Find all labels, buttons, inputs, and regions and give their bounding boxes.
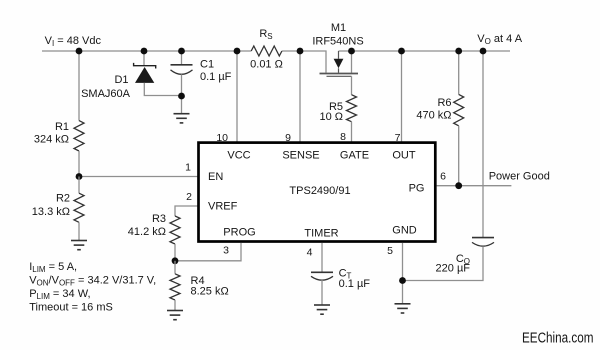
svg-text:SMAJ60A: SMAJ60A: [81, 88, 131, 100]
svg-text:OUT: OUT: [392, 150, 416, 162]
svg-text:C1: C1: [200, 59, 214, 71]
node rail junction VCC: [234, 48, 241, 55]
node rail junction R1: [76, 48, 83, 55]
svg-text:3: 3: [223, 245, 229, 257]
wire VREF pin lead: [175, 206, 199, 216]
svg-text:470 kΩ: 470 kΩ: [416, 110, 451, 122]
svg-text:220 µF: 220 µF: [436, 262, 471, 274]
wire M1 gate to R5: [351, 76, 353, 94]
svg-text:6: 6: [440, 171, 446, 183]
svg-text:324 kΩ: 324 kΩ: [34, 133, 69, 145]
svg-text:Timeout = 16 mS: Timeout = 16 mS: [29, 302, 113, 314]
svg-text:SENSE: SENSE: [282, 150, 319, 162]
svg-text:0.1 µF: 0.1 µF: [200, 71, 232, 83]
resistor RS: [251, 46, 282, 56]
resistor R3: [170, 216, 180, 244]
svg-text:TPS2490/91: TPS2490/91: [289, 185, 350, 197]
svg-text:7: 7: [395, 132, 401, 144]
svg-text:0.1 µF: 0.1 µF: [339, 278, 371, 290]
capacitor C1: [181, 51, 183, 65]
svg-text:VCC: VCC: [227, 150, 250, 162]
wire R6 bottom to PG line: [458, 126, 460, 186]
svg-text:8.25 kΩ: 8.25 kΩ: [191, 286, 229, 298]
svg-text:GATE: GATE: [340, 150, 369, 162]
capacitor CT: [311, 271, 333, 273]
wire CO bottom to GND node: [403, 246, 484, 280]
node rail junction D1: [141, 48, 148, 55]
svg-text:R6: R6: [437, 97, 451, 109]
svg-text:R3: R3: [152, 213, 166, 225]
resistor R2: [78, 177, 80, 194]
node rail junction OUT: [398, 48, 405, 55]
ground below C1: [174, 114, 190, 123]
wire M1 source lead: [351, 51, 353, 73]
ground below GND pin: [395, 304, 411, 313]
node PG/R6 junction: [455, 182, 462, 189]
node C1/D1 junction: [178, 93, 185, 100]
svg-text:4: 4: [307, 247, 313, 259]
wire C1 bottom to ground: [181, 74, 183, 113]
resistor R4: [174, 261, 176, 274]
svg-text:PROG: PROG: [223, 227, 255, 239]
svg-text:1: 1: [185, 162, 191, 174]
svg-text:10 Ω: 10 Ω: [319, 111, 343, 123]
svg-text:R2: R2: [56, 193, 70, 205]
resistor R5: [347, 95, 357, 122]
diode D1: [143, 51, 145, 66]
node R3/R4/PROG junction: [172, 257, 179, 264]
node rail junction SENSE: [297, 48, 304, 55]
wire R4 to ground: [174, 300, 176, 311]
wire VCC pin lead: [236, 51, 238, 143]
wire R1 bottom to EN node: [78, 151, 80, 177]
svg-text:VO at 4 A: VO at 4 A: [477, 33, 522, 46]
wire R5 to GATE pin: [351, 122, 353, 143]
capacitor CO: [472, 237, 494, 239]
node rail junction C1: [178, 48, 185, 55]
svg-text:PG: PG: [409, 183, 425, 195]
node R1/R2 junction: [76, 173, 83, 180]
svg-text:R1: R1: [55, 121, 69, 133]
svg-text:EN: EN: [208, 171, 223, 183]
svg-text:VREF: VREF: [208, 201, 238, 213]
node rail junction CO: [480, 48, 487, 55]
wire PG line: [437, 185, 512, 187]
wire TIMER pin lead: [321, 243, 323, 272]
resistor R1: [74, 121, 84, 151]
node rail junction R6: [455, 48, 462, 55]
wire R3 bottom to node: [174, 244, 176, 261]
ground below R2: [71, 241, 87, 250]
wire rail between Rs and M1 drain: [282, 51, 326, 73]
node rail junction M1 source: [348, 48, 355, 55]
capacitor CO lead from rail: [482, 51, 484, 238]
wire OUT pin lead: [401, 51, 403, 143]
svg-text:D1: D1: [114, 74, 128, 86]
svg-text:M1: M1: [331, 22, 346, 34]
svg-text:9: 9: [285, 132, 291, 144]
wire PROG pin lead: [175, 243, 241, 261]
ground below CT: [314, 305, 330, 314]
wire R2 to ground: [78, 222, 80, 240]
svg-text:0.01 Ω: 0.01 Ω: [250, 59, 283, 71]
ground below R4: [167, 311, 183, 320]
svg-text:13.3 kΩ: 13.3 kΩ: [32, 206, 70, 218]
svg-text:5: 5: [387, 245, 393, 257]
svg-text:VON/VOFF = 34.2 V/31.7 V,: VON/VOFF = 34.2 V/31.7 V,: [29, 275, 156, 288]
op-amp U1 : IC TPS2490/91 box: [199, 143, 436, 242]
svg-text:IRF540NS: IRF540NS: [312, 36, 363, 48]
svg-text:8: 8: [340, 131, 346, 143]
wire CT to ground: [321, 280, 323, 305]
svg-text:2: 2: [186, 191, 192, 203]
svg-text:10: 10: [216, 132, 228, 144]
resistor R6: [458, 51, 460, 94]
svg-text:EEChina.com: EEChina.com: [522, 330, 594, 347]
svg-text:41.2 kΩ: 41.2 kΩ: [128, 226, 166, 238]
node GND/CO junction: [399, 277, 406, 284]
wire D1 anode to C1 bottom: [144, 83, 181, 96]
wire SENSE pin lead: [299, 51, 301, 143]
wire input rail left segment: [42, 50, 251, 52]
svg-text:Power Good: Power Good: [489, 171, 550, 183]
wire GND pin lead: [402, 243, 404, 304]
svg-text:TIMER: TIMER: [304, 227, 338, 239]
svg-text:GND: GND: [392, 225, 417, 237]
wire EN to pin 1: [79, 176, 199, 178]
wire output rail: [339, 50, 511, 52]
wire R1 branch from rail: [78, 51, 80, 121]
